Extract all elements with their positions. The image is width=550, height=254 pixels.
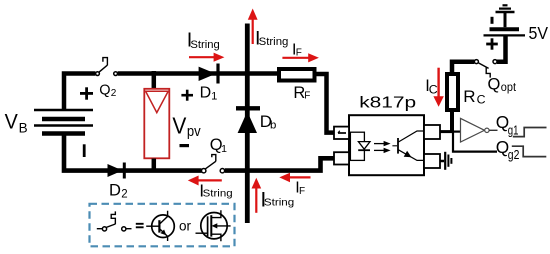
svg-text:or: or bbox=[179, 218, 192, 233]
arrow IC bbox=[433, 68, 443, 107]
wire RF to opto pin1 bbox=[315, 74, 335, 133]
legend switch lead right bbox=[126, 228, 132, 230]
wire RC bottom bbox=[450, 110, 454, 132]
svg-text:String: String bbox=[264, 196, 294, 208]
pin 1 mark bbox=[338, 131, 346, 133]
resistor RF bbox=[279, 69, 315, 81]
wire battery top to Q2 bbox=[64, 74, 95, 111]
ground (5V) bbox=[496, 5, 515, 12]
arrow IF top bbox=[282, 53, 319, 62]
diode D1 bbox=[199, 67, 216, 81]
svg-text:String: String bbox=[259, 36, 289, 48]
wire to Qg2 bbox=[453, 132, 497, 152]
wire Q2 to RF bbox=[118, 71, 277, 76]
svg-text:R: R bbox=[463, 87, 475, 106]
PV module red box bbox=[144, 89, 169, 159]
switch Q2 bbox=[96, 72, 118, 76]
plus sign VB bbox=[80, 87, 93, 99]
wire RC top bbox=[452, 62, 474, 74]
opto pin 2 bbox=[334, 152, 349, 164]
wire pin3 ground stub bbox=[440, 160, 444, 163]
legend dashed box bbox=[90, 204, 235, 247]
svg-text:Q: Q bbox=[99, 83, 110, 99]
LED D3 bbox=[358, 142, 370, 150]
resistor RC bbox=[447, 74, 458, 110]
svg-text:5V: 5V bbox=[529, 23, 549, 43]
battery VB bbox=[34, 110, 93, 134]
legend switch lead left bbox=[97, 228, 102, 230]
svg-text:k817p: k817p bbox=[359, 94, 416, 111]
svg-text:C: C bbox=[429, 82, 438, 96]
svg-text:Q: Q bbox=[488, 75, 501, 93]
svg-text:1: 1 bbox=[211, 91, 217, 103]
svg-text:pv: pv bbox=[187, 123, 201, 140]
arrow IString bus-bottom bbox=[252, 178, 262, 213]
LED loop wire bbox=[350, 132, 364, 160]
svg-text:g2: g2 bbox=[508, 147, 520, 162]
opto pin 4 (top right) bbox=[424, 125, 440, 139]
svg-text:1: 1 bbox=[221, 143, 227, 155]
waveform Qg1 bbox=[513, 128, 547, 137]
minus sign PV bbox=[180, 144, 190, 147]
arrow IString bottom-left bbox=[188, 176, 222, 186]
arrow IString top-left bbox=[189, 53, 224, 62]
optocoupler U1 body bbox=[349, 115, 424, 175]
svg-text:B: B bbox=[19, 121, 28, 136]
wire battery bottom bbox=[64, 134, 202, 171]
svg-text:F: F bbox=[304, 90, 310, 101]
diode Db bbox=[236, 106, 260, 110]
svg-text:opt: opt bbox=[501, 82, 517, 94]
svg-text:g1: g1 bbox=[508, 123, 519, 138]
ground (opto) bbox=[445, 152, 451, 170]
svg-text:2: 2 bbox=[111, 88, 117, 99]
wire PV top bbox=[152, 71, 157, 89]
svg-text:D: D bbox=[109, 182, 121, 200]
svg-text:C: C bbox=[477, 92, 486, 106]
plus sign PV bbox=[181, 90, 193, 101]
wire PV bottom bbox=[152, 159, 157, 171]
phototransistor bbox=[392, 131, 424, 160]
diode D2 bbox=[108, 164, 123, 177]
arrow IF bottom bbox=[279, 173, 310, 182]
minus mark VB bbox=[83, 144, 86, 157]
inverter U2 bbox=[461, 118, 485, 142]
opto pin 3 (bottom right) bbox=[424, 154, 440, 168]
svg-text:2: 2 bbox=[121, 189, 127, 201]
light arrow 1 bbox=[374, 141, 391, 146]
wire Qopt to 5V battery bbox=[497, 36, 506, 62]
legend BJT Q bbox=[146, 211, 174, 241]
wire inverter out bbox=[489, 129, 497, 131]
svg-text:V: V bbox=[5, 110, 19, 134]
svg-text:F: F bbox=[299, 186, 305, 197]
node RC-inverter bbox=[452, 131, 461, 133]
opto pin 1 bbox=[334, 127, 349, 139]
waveform Qg2 bbox=[512, 146, 547, 156]
wire Q1 to opto pin2 bbox=[225, 158, 334, 170]
svg-text:V: V bbox=[172, 112, 186, 138]
light arrow 2 bbox=[374, 148, 391, 153]
wire opto pin4 to RC node bbox=[440, 130, 452, 133]
equals sign bbox=[136, 224, 144, 228]
string bus wire bbox=[245, 24, 250, 224]
legend MOSFET bbox=[196, 210, 231, 241]
wire battery to ground bbox=[504, 13, 507, 27]
svg-text:D: D bbox=[200, 84, 212, 101]
battery 5V bbox=[490, 27, 520, 31]
arrow IString bus-top bbox=[248, 9, 258, 45]
svg-text:String: String bbox=[190, 39, 219, 51]
switch Qopt bbox=[474, 60, 497, 64]
legend switch bbox=[102, 227, 126, 231]
svg-text:b: b bbox=[270, 120, 276, 132]
switch Q1 bbox=[202, 169, 225, 173]
svg-text:String: String bbox=[203, 189, 233, 200]
plus sign 5V bbox=[486, 38, 498, 49]
minus mark 5V bbox=[491, 17, 494, 24]
